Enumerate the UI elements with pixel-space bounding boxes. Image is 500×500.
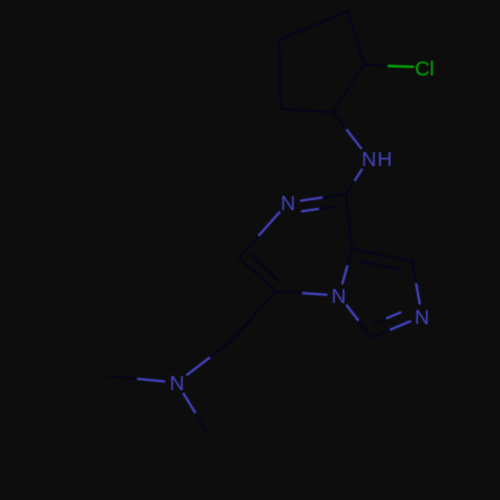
double bond N7=C8 main line dark half bbox=[324, 194, 347, 197]
bond Namine-CH3 left blue half bbox=[136, 379, 164, 382]
double bond C3=N2 inner line blue half bbox=[387, 313, 400, 319]
svg-text:N: N bbox=[281, 193, 296, 215]
bond N4-C5 blue half bbox=[301, 293, 326, 295]
cyclopentane ring: bond P5-P1 bbox=[281, 109, 333, 112]
bond N2-C1 blue half bbox=[416, 282, 420, 303]
bond Namine-CH3 left dark half bbox=[108, 376, 136, 379]
bond C8-C8a bbox=[346, 194, 352, 249]
bond N4-C5 dark half bbox=[276, 292, 301, 294]
bond N2-C1 dark half bbox=[412, 261, 416, 282]
bond P2-Cl dark half bbox=[364, 65, 389, 67]
bond C5-C6 bbox=[239, 258, 276, 292]
bond C6-N7 dark half bbox=[239, 235, 259, 258]
cyclopentane ring: bond P1-P2 bbox=[333, 65, 364, 113]
double bond C1=C8a inner line bbox=[359, 261, 400, 269]
bond P1-NH dark half bbox=[333, 112, 347, 130]
bond P2-Cl green half bbox=[389, 65, 414, 68]
svg-text:N: N bbox=[331, 286, 346, 308]
bond C8a-N4 blue half bbox=[342, 266, 347, 283]
bond Namine-CH3 down blue half bbox=[184, 394, 196, 414]
cyclopentane ring: bond P3-P4 bbox=[279, 11, 348, 40]
bond N4-C3 blue half bbox=[347, 305, 359, 321]
bond C5-CH2 chain bbox=[231, 292, 276, 342]
svg-text:N: N bbox=[415, 307, 430, 329]
bond CH2-Namine blue half bbox=[187, 358, 209, 375]
svg-text:H: H bbox=[377, 149, 392, 171]
bond NH-C8 dark half bbox=[346, 182, 354, 194]
bond NH-C8 blue half bbox=[354, 169, 362, 181]
double bond N7=C8 inner line blue half bbox=[302, 209, 320, 212]
bond C8a-N4 dark half bbox=[347, 249, 352, 266]
cyclopentane ring: bond P2-P3 bbox=[348, 11, 364, 65]
bond C1-C8a bbox=[352, 249, 412, 261]
svg-text:N: N bbox=[362, 149, 377, 171]
bond Namine-CH3 down dark half bbox=[196, 414, 208, 434]
bond CH2-Namine dark half bbox=[209, 341, 231, 358]
cyclopentane ring: bond P4-P5 bbox=[279, 40, 281, 109]
double bond C3=N2 main line blue half bbox=[391, 321, 410, 329]
bond P1-NH blue half bbox=[347, 130, 361, 148]
svg-text:N: N bbox=[170, 373, 185, 395]
double bond C5=C6 inner line bbox=[250, 254, 279, 281]
double bond N7=C8 inner line dark half bbox=[320, 206, 338, 209]
double bond C3=N2 main line dark half bbox=[372, 330, 391, 338]
bond N4-C3 dark half bbox=[359, 322, 371, 338]
svg-text:Cl: Cl bbox=[415, 59, 434, 81]
bond C6-N7 blue half bbox=[259, 212, 279, 235]
double bond N7=C8 main line blue half bbox=[301, 197, 324, 200]
double bond C3=N2 inner line dark half bbox=[374, 318, 388, 324]
